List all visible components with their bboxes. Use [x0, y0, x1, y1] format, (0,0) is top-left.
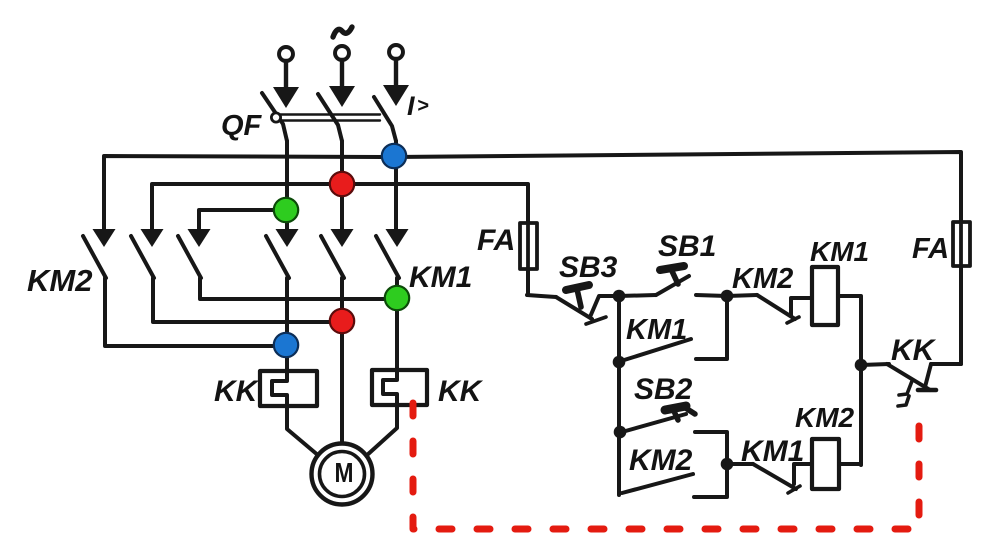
node blue bottom — [274, 333, 298, 357]
pushbutton SB3 blade end serif — [586, 317, 606, 324]
contact KM1 NC blade end serif — [788, 486, 800, 493]
wire L1 drop with arrow — [273, 61, 299, 108]
wire KK left to motor — [287, 406, 319, 456]
svg-text:SB2: SB2 — [634, 373, 693, 406]
contactor KM2 pole3 arrow — [188, 229, 211, 247]
contact KM2 NC blade end serif — [787, 317, 799, 323]
label tilde — [333, 27, 352, 37]
fuse FA left — [520, 223, 537, 269]
contactor KM1 pole1 arrow — [276, 229, 299, 247]
wire KM2 pole3 output to green node — [200, 278, 396, 299]
node green bottom — [385, 286, 409, 310]
wire bus line1 — [104, 152, 961, 229]
wire phase2 KM1 output down to motor — [340, 278, 344, 444]
svg-text:SB3: SB3 — [559, 251, 618, 284]
contact KM2 NC right terminal — [791, 298, 812, 316]
breaker QF pole 3 blade — [374, 97, 396, 141]
svg-text:FA: FA — [912, 233, 949, 265]
svg-text:KM2: KM2 — [795, 402, 855, 433]
svg-text:>: > — [417, 95, 429, 117]
contact KK control right terminal — [925, 364, 931, 387]
wire L2 drop with arrow — [329, 60, 355, 107]
contactor KM2 pole1 blade — [83, 236, 106, 278]
coil KM1 — [812, 267, 838, 325]
contact KM1 NC wire — [727, 462, 753, 466]
node E junction — [614, 426, 627, 439]
breaker QF pole 1 blade — [262, 93, 287, 141]
wire control bus vertical — [617, 296, 621, 495]
wire coil KM2 to right bus — [839, 462, 861, 466]
svg-text:KM2: KM2 — [732, 263, 793, 295]
contact KK control actuator hook — [898, 381, 912, 406]
motor M — [312, 444, 373, 505]
node A junction — [613, 290, 626, 303]
svg-text:KM2: KM2 — [27, 263, 92, 298]
node red bottom — [330, 309, 354, 333]
pushbutton SB3 blade — [556, 297, 592, 319]
wire KM2 pole2 output to red node — [153, 278, 342, 322]
wire coil KM1 to right bus — [838, 296, 861, 465]
svg-text:KM1: KM1 — [626, 314, 687, 346]
contact KM1 NC right terminal — [794, 464, 812, 484]
pushbutton SB1 wire — [619, 295, 656, 296]
contactor KM2 pole1 arrow — [93, 229, 116, 247]
contact KK control blade — [887, 364, 930, 390]
QF linking bar — [273, 115, 380, 121]
contactor KM1 pole3 arrow — [386, 229, 409, 247]
pushbutton SB2 actuator — [665, 406, 695, 420]
wire phase1 vertical QF to KM1 contact — [285, 141, 289, 229]
wire FA right down to KK — [959, 266, 963, 364]
wire phase3 vertical QF to KM1 contact — [394, 141, 398, 229]
wire phase2 vertical QF to KM1 contact — [340, 141, 344, 229]
svg-text:M: M — [335, 457, 354, 488]
svg-text:QF: QF — [221, 110, 263, 142]
QF pivot circle — [271, 113, 280, 122]
svg-text:KM2: KM2 — [629, 444, 693, 477]
wire KM2 pole1 output to blue node — [105, 278, 286, 346]
fuse FA right — [953, 222, 970, 266]
contact KM1 aux right lead — [696, 296, 727, 359]
wire KK right to motor — [366, 405, 397, 456]
contact KM2 NC blade — [757, 295, 795, 319]
pushbutton SB1 actuator — [660, 266, 684, 284]
wire bus line3 — [199, 210, 287, 229]
pushbutton SB3 right lead — [590, 296, 619, 317]
contact KM1 aux blade — [621, 339, 691, 361]
pushbutton SB1 blade — [656, 276, 689, 295]
contactor KM1 pole1 blade — [266, 236, 289, 278]
svg-text:KK: KK — [891, 334, 937, 367]
terminal L1 — [279, 47, 293, 61]
contactor KM1 pole2 blade — [321, 236, 344, 278]
contact KM2 NO blade — [622, 474, 693, 493]
pushbutton SB2 blade — [622, 414, 686, 432]
contactor KM2 pole2 blade — [131, 236, 154, 278]
svg-text:KM1: KM1 — [409, 261, 472, 294]
contactor KM1 pole2 arrow — [331, 229, 354, 247]
wire phase1 KM1 output down to KK — [285, 278, 289, 371]
node green top — [274, 198, 298, 222]
node blue top — [382, 144, 406, 168]
contactor KM1 pole3 blade — [376, 236, 399, 278]
coil KM2 — [812, 439, 839, 489]
contactor KM2 pole2 arrow — [141, 229, 164, 247]
svg-text:SB1: SB1 — [658, 230, 716, 263]
breaker QF pole 2 blade — [318, 94, 342, 141]
svg-text:KK: KK — [214, 375, 260, 408]
svg-text:I: I — [407, 91, 415, 121]
wire L3 drop with arrow — [383, 59, 409, 106]
node C junction — [855, 359, 868, 372]
terminal L3 — [389, 45, 403, 59]
node F junction — [721, 458, 734, 471]
node B junction — [721, 290, 734, 303]
node D junction — [613, 356, 626, 369]
contact KK control right wire — [931, 362, 961, 366]
contact KM2 NC wire — [727, 295, 757, 296]
wire phase3 KM1 output down to KK — [395, 278, 399, 370]
pushbutton SB1 right lead — [696, 295, 727, 296]
wire SB2/KM2 right connector — [694, 432, 727, 497]
svg-text:KM1: KM1 — [741, 435, 804, 468]
wire FA left to SB3 — [527, 269, 556, 297]
thermal relay KK left box — [260, 371, 317, 406]
contactor KM2 pole3 blade — [178, 236, 201, 278]
svg-text:KK: KK — [438, 375, 484, 408]
contact KK control terminal foot — [918, 388, 936, 393]
terminal L2 — [335, 46, 349, 60]
svg-text:KM1: KM1 — [810, 236, 869, 267]
pushbutton SB3 actuator — [566, 285, 589, 307]
svg-text:FA: FA — [477, 224, 515, 257]
red dashed frame — [413, 403, 919, 529]
thermal relay KK right box — [372, 370, 427, 405]
node red top — [330, 172, 354, 196]
contact KM1 NC blade — [753, 464, 796, 489]
contact KK control lead — [861, 364, 889, 365]
wire bus line2 — [152, 184, 528, 229]
